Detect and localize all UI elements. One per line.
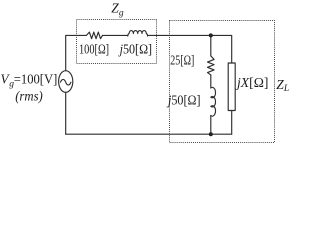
svg-text:100[Ω]: 100[Ω] — [79, 41, 109, 56]
svg-text:=100[V]: =100[V] — [14, 72, 58, 87]
svg-text:j50[Ω]: j50[Ω] — [118, 41, 152, 56]
source V ellipse — [59, 71, 73, 93]
dashed box ZL — [170, 21, 275, 143]
node A junction dot — [209, 33, 213, 37]
sine symbol inside source — [61, 79, 71, 85]
resistor R 100ohm (horizontal zigzag) — [86, 32, 102, 39]
wire resistor to inductor — [210, 75, 212, 88]
wire from inductor to node A — [148, 34, 211, 36]
impedance box jX — [228, 63, 235, 111]
wire coil to bottom node B — [210, 116, 212, 135]
wire top-left from source up and right to resistor — [66, 35, 87, 70]
svg-text:j50[Ω]: j50[Ω] — [166, 93, 200, 108]
svg-text:(rms): (rms) — [15, 89, 43, 104]
inductor j50ohm (horizontal coil, 4 bumps) — [128, 31, 148, 36]
wire between resistor and inductor — [103, 34, 128, 36]
resistor 25ohm (vertical zigzag) — [208, 56, 215, 75]
inductor j50ohm (vertical coil, 3 loops) — [211, 87, 216, 116]
wire jX box bottom to bottom rail — [231, 111, 233, 135]
wire node A down to resistor 25ohm — [210, 35, 212, 56]
node B junction dot — [209, 132, 213, 136]
svg-text:25[Ω]: 25[Ω] — [170, 53, 194, 68]
wire source bottom down to bottom rail — [65, 92, 67, 134]
svg-text:jX[Ω]: jX[Ω] — [235, 75, 269, 90]
bottom wire — [66, 133, 232, 135]
dashed box Zg — [77, 20, 157, 64]
wire node A to right branch corner and down to jX box — [211, 35, 232, 63]
